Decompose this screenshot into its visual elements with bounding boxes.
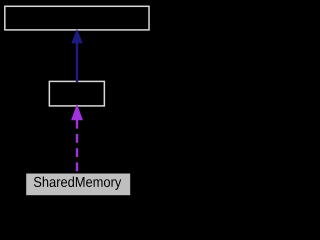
usage arrow shaft (dashed, darkorchid) [76, 120, 78, 174]
label SharedMemory [34, 177, 121, 190]
inheritance arrow shaft (solid, midnightblue) [76, 42, 78, 83]
node SharedMemory [26, 174, 130, 196]
node box: intermediate class (empty label) [49, 81, 104, 106]
usage arrow head [71, 104, 83, 120]
inheritance arrow head [71, 29, 82, 44]
node box: base class (empty label) [5, 6, 149, 30]
